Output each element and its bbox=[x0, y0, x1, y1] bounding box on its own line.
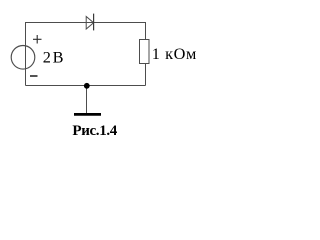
svg-text:Рис.1.4: Рис.1.4 bbox=[72, 123, 117, 139]
svg-text:1 кОм: 1 кОм bbox=[152, 44, 197, 63]
svg-text:В: В bbox=[53, 48, 64, 67]
svg-text:2: 2 bbox=[43, 48, 51, 67]
